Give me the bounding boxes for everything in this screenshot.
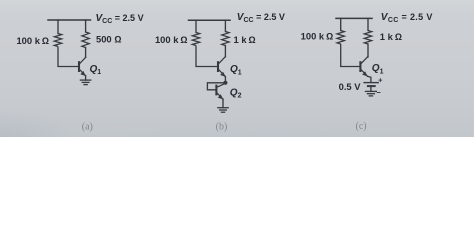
wire: right branch top (a) [85,20,87,32]
wire: right branch top (c) [367,18,369,30]
svg-text:Q1: Q1 [90,64,102,76]
svg-text:VCC = 2.5 V: VCC = 2.5 V [96,13,144,25]
svg-text:(a): (a) [82,121,93,132]
wire: collector wire (a) [85,48,87,58]
wire: left branch top (b) [195,20,197,32]
svg-text:Q1: Q1 [230,64,242,76]
wire: emitter Q2 (b) [222,99,224,108]
ground (a) [80,79,90,81]
svg-text:VCC = 2.5 V: VCC = 2.5 V [381,12,433,24]
node: junction dot (b) [223,81,227,85]
resistor 1 kOhm (c) [364,31,371,45]
svg-text:(b): (b) [216,122,228,133]
wire: emitter wire to battery (c) [367,76,371,82]
transistor Q1 (b) [217,61,219,72]
resistor 100 kOhm (c) [337,31,344,45]
transistor Q1 (a) [78,61,80,72]
resistor 500 Ohm (a) [82,32,89,48]
wire: left branch bottom + base wire (c) [341,44,360,67]
svg-text:−: − [377,88,382,97]
wire: left branch top (a) [57,20,59,34]
wire: battery to ground (c) [370,86,372,91]
svg-text:Q2: Q2 [230,87,242,99]
svg-text:500 Ω: 500 Ω [96,34,121,45]
wire: right branch top (b) [224,20,226,31]
svg-text:1 k Ω: 1 k Ω [234,34,256,45]
svg-text:VCC = 2.5 V: VCC = 2.5 V [237,12,285,24]
svg-text:100 k Ω: 100 k Ω [301,31,334,42]
wire: left branch bottom + base wire (a) [58,47,78,67]
ground (b) [218,107,228,109]
wire: left branch top (c) [340,18,342,30]
wire: left branch bottom + base wire (b) [196,46,217,67]
wire: collector wire Q1 (c) [367,44,369,57]
svg-text:(c): (c) [356,121,367,132]
ground (c) [365,90,376,92]
wire: emitter wire (a) [85,76,87,80]
wire: VCC power rail (a) [48,19,91,21]
svg-text:Q1: Q1 [372,63,384,75]
svg-text:100 k Ω: 100 k Ω [16,35,49,46]
wire: node to Q2 base loop (b) [207,83,225,90]
resistor 100 kOhm (a) [54,34,61,47]
battery 0.5 V: + plate (c) [364,82,378,84]
transistor Q1 (c) [359,61,361,72]
wire: VCC power rail (c) [336,17,372,19]
wire: emitter Q1 to node (b) [224,77,226,83]
transistor Q2 (b) [215,85,217,96]
svg-text:1 k Ω: 1 k Ω [380,31,402,42]
svg-text:+: + [378,76,383,85]
battery 0.5 V: - plate (c) [368,85,375,87]
wire: VCC power rail (b) [189,19,231,21]
resistor 1 kOhm (b) [222,32,229,46]
svg-text:0.5 V: 0.5 V [339,81,362,92]
svg-text:100 k Ω: 100 k Ω [155,34,188,45]
wire: node down to Q2 collector (b) [224,82,226,85]
wire: collector wire Q1 (b) [224,46,226,57]
resistor 100 kOhm (b) [192,33,199,46]
